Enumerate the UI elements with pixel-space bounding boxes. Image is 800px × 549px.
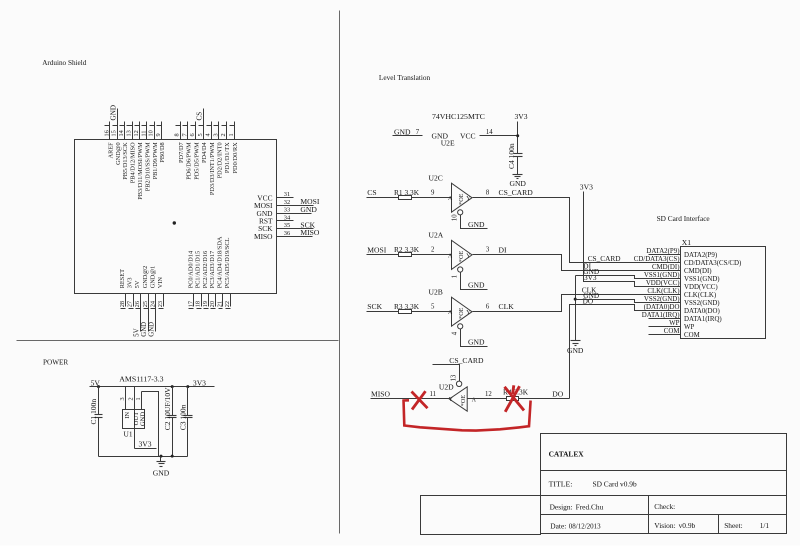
svg-text:5V: 5V [134, 328, 141, 336]
svg-text:*OE: *OE [458, 307, 465, 319]
wire CS_CARD net to X1 [473, 198, 681, 263]
pin 18 (PC1/AD1/D15) bottom [201, 294, 203, 307]
wire 3V3 rail to X1 VDD [584, 192, 681, 287]
svg-text:COM: COM [664, 328, 680, 335]
pin 2 (PD1/D1/TX) top [226, 122, 228, 140]
svg-text:PD7/D7: PD7/D7 [178, 142, 185, 163]
junction GND/VSS2 [574, 298, 577, 301]
svg-text:3: 3 [486, 247, 490, 254]
svg-text:PC5/AD5/D19/SCL: PC5/AD5/D19/SCL [224, 237, 231, 288]
wire SCK input [367, 311, 399, 313]
X1 pin 4 VSS1(GND) [649, 278, 681, 280]
wire U2A OE to GND [461, 273, 488, 290]
pin 28 (RESET) bottom [125, 294, 127, 307]
svg-text:CD/DATA3(CS): CD/DATA3(CS) [634, 256, 680, 263]
svg-text:GND: GND [468, 281, 485, 290]
svg-text:PD2/D2/INT0: PD2/D2/INT0 [217, 142, 224, 178]
svg-text:4: 4 [451, 331, 458, 335]
svg-text:GND: GND [141, 322, 148, 337]
capacitor C1 100n [98, 387, 100, 415]
svg-text:33: 33 [284, 207, 290, 214]
svg-text:RESET: RESET [119, 269, 126, 288]
svg-text:U1: U1 [124, 430, 133, 439]
ground symbol C4 [513, 174, 523, 176]
svg-text:3V3: 3V3 [580, 182, 593, 191]
junction C2 / ground rail [171, 455, 174, 458]
svg-text:1/1: 1/1 [760, 521, 770, 530]
X1 pin 7 VSS2(GND) [649, 302, 681, 304]
pin 31 (VCC) right [277, 197, 294, 199]
X1 pin 8 DATA0(DO) [649, 310, 681, 312]
svg-text:31: 31 [284, 191, 290, 198]
svg-text:26: 26 [134, 301, 141, 307]
svg-text:DATA1(IRQ): DATA1(IRQ) [684, 316, 722, 323]
svg-text:8: 8 [174, 133, 181, 136]
svg-text:11: 11 [140, 130, 147, 136]
svg-text:PB0/D8: PB0/D8 [159, 142, 166, 162]
svg-text:GND: GND [567, 346, 584, 355]
svg-text:PD0/D0/RX: PD0/D0/RX [232, 142, 239, 174]
svg-text:25: 25 [142, 301, 149, 307]
gate U2A OE bubble pin 1 [458, 267, 463, 272]
pin 35 (SCK) right [277, 228, 314, 230]
capacitor C4 100n [514, 153, 523, 155]
X1 pin 1 DATA2(P9) [649, 254, 681, 256]
svg-text:VDD(VCC): VDD(VCC) [684, 284, 718, 291]
title block dividers [541, 470, 787, 472]
pin 21 (PC4/AD4/D18/SDA) bottom [222, 294, 224, 307]
svg-text:10: 10 [451, 214, 458, 221]
svg-text:GND: GND [468, 338, 485, 347]
svg-text:DATA0(DO): DATA0(DO) [684, 308, 720, 315]
svg-text:3V3: 3V3 [139, 439, 152, 448]
svg-text:Sheet:: Sheet: [724, 521, 742, 530]
svg-text:PB2/D10/SS/PWM: PB2/D10/SS/PWM [144, 142, 151, 191]
sheet divider horizontal (left half) [17, 340, 339, 342]
svg-text:15: 15 [111, 130, 118, 136]
svg-text:VSS2(GND): VSS2(GND) [644, 296, 680, 303]
svg-text:U2C: U2C [429, 173, 443, 182]
X1 pin 11 COM [649, 334, 681, 336]
svg-text:10: 10 [148, 130, 155, 136]
pin 27 (3V3) bottom [133, 294, 135, 307]
wire MISO to U2D output [371, 398, 450, 400]
svg-text:23: 23 [157, 301, 164, 307]
svg-text:7: 7 [181, 133, 188, 136]
red X mark over R4 [505, 387, 525, 411]
pin 32 (MOSI) right [277, 205, 314, 207]
svg-text:22: 22 [224, 301, 231, 307]
X1 pin 2 CD/DATA3(CS/CD) [649, 262, 681, 264]
svg-text:SD Card v0.9b: SD Card v0.9b [593, 480, 637, 489]
svg-text:19: 19 [202, 301, 209, 307]
U1 pin 3 IN [125, 387, 127, 410]
svg-text:CATALEX: CATALEX [549, 449, 585, 458]
wire CS input [367, 197, 399, 199]
svg-text:MISO: MISO [254, 232, 273, 241]
svg-text:Level Translation: Level Translation [379, 73, 431, 82]
Arduino Shield symbol dot [173, 221, 176, 224]
svg-text:VSS2(GND): VSS2(GND) [684, 300, 720, 307]
svg-text:Check:: Check: [654, 502, 675, 511]
pin 7 (PD6/D6/PWM) top [187, 122, 189, 140]
svg-text:X1: X1 [682, 238, 691, 247]
svg-text:VDD(VCC): VDD(VCC) [646, 280, 680, 287]
svg-text:Design:: Design: [550, 502, 573, 511]
pin 26 (5V) bottom [140, 294, 142, 332]
pin 17 (PC0/AD0/D14) bottom [193, 294, 195, 307]
svg-text:WP: WP [684, 324, 695, 331]
pin 16 (AREF) top [109, 122, 111, 140]
svg-text:DATA2(P9): DATA2(P9) [646, 248, 679, 255]
IC U? Arduino Shield body [75, 140, 277, 294]
svg-text:VSS1(GND): VSS1(GND) [644, 272, 680, 279]
svg-text:5: 5 [431, 303, 435, 310]
svg-text:CLK(CLK): CLK(CLK) [684, 292, 716, 299]
svg-text:9: 9 [431, 189, 435, 196]
regulator U1 AMS1117 body [123, 410, 145, 429]
svg-text:Arduino Shield: Arduino Shield [42, 59, 87, 67]
svg-text:CD/DATA3(CS/CD): CD/DATA3(CS/CD) [684, 260, 741, 267]
svg-text:17: 17 [187, 301, 194, 307]
pin 11 (PB2/D10/SS/PWM) top [146, 122, 148, 140]
svg-text:DI: DI [499, 245, 507, 254]
pin 10 (PB1/D9/PWM) top [154, 122, 156, 140]
svg-text:POWER: POWER [43, 359, 68, 367]
svg-text:CMD(DI): CMD(DI) [652, 264, 680, 271]
pin 12 (PB3/D11/MOSI/PWM) top [139, 122, 141, 140]
X1 pin 3 CMD(DI) [649, 270, 681, 272]
svg-text:GND@0: GND@0 [115, 142, 122, 165]
revision table empty box [421, 496, 541, 535]
svg-text:*OE: *OE [460, 395, 467, 407]
svg-text:U2A: U2A [429, 231, 444, 240]
X1 pin 6 CLK(CLK) [649, 294, 681, 296]
svg-text:*OE: *OE [458, 193, 465, 205]
svg-text:34: 34 [284, 214, 291, 221]
wire U2D input [468, 398, 507, 400]
svg-text:GND: GND [583, 291, 599, 300]
svg-text:TITLE:: TITLE: [549, 480, 573, 489]
wire U2C OE to GND [461, 215, 488, 229]
svg-text:5: 5 [197, 133, 204, 136]
svg-text:SCK: SCK [367, 302, 382, 311]
pin 5 (PD4/D4) top [203, 122, 205, 140]
svg-text:GND: GND [149, 322, 156, 337]
svg-text:CS_CARD: CS_CARD [588, 254, 621, 263]
svg-text:PD5/D5/PWM: PD5/D5/PWM [193, 142, 200, 180]
svg-text:GND: GND [110, 105, 118, 121]
net label GND (pin 15) [117, 109, 119, 122]
svg-text:VSS1(GND): VSS1(GND) [684, 276, 720, 283]
svg-text:3V3: 3V3 [515, 112, 528, 121]
svg-text:24: 24 [149, 300, 156, 307]
svg-text:8: 8 [486, 189, 490, 196]
svg-text:GND: GND [509, 179, 526, 188]
svg-text:74VHC125MTC: 74VHC125MTC [432, 112, 485, 121]
pin 24 (GND@1) bottom [155, 294, 157, 332]
svg-text:MISO: MISO [371, 389, 391, 398]
svg-text:PC4/AD4/D18/SDA: PC4/AD4/D18/SDA [217, 236, 224, 288]
svg-text:MISO: MISO [300, 228, 320, 237]
pin 25 (GND@2) bottom [148, 294, 150, 332]
pin 36 (MISO) right [277, 236, 313, 238]
svg-text:VCC: VCC [460, 131, 476, 140]
svg-text:PC2/AD2/D16: PC2/AD2/D16 [202, 251, 209, 288]
svg-text:28: 28 [119, 301, 126, 307]
svg-text:11: 11 [430, 391, 437, 398]
svg-text:DO: DO [552, 389, 563, 398]
pin 13 (PB4/D12/MISO) top [132, 122, 134, 140]
wire 3V3 stub to C4 [517, 122, 519, 154]
gate U2A triangle [452, 240, 473, 269]
sheet divider vertical [339, 11, 341, 534]
svg-text:27: 27 [127, 301, 134, 307]
svg-text:2: 2 [128, 397, 135, 400]
capacitor C2 10UF/10V [172, 387, 174, 416]
svg-text:(DATA0)DO: (DATA0)DO [644, 304, 680, 311]
pin 1 (PD0/D0/RX) top [234, 122, 236, 140]
svg-text:MOSI: MOSI [367, 245, 386, 254]
pin 3 (PD2/D2/INT0) top [218, 122, 220, 140]
svg-text:6: 6 [189, 133, 196, 136]
junction ground rail / GND symbol [160, 455, 163, 458]
svg-text:GND: GND [300, 205, 317, 214]
svg-text:1: 1 [451, 275, 458, 278]
svg-text:3: 3 [212, 133, 219, 136]
wire ground rail POWER [99, 456, 188, 458]
X1 pin 9 DATA1(IRQ) [649, 318, 681, 320]
svg-text:GND@1: GND@1 [149, 266, 156, 289]
svg-text:PD4/D4: PD4/D4 [201, 141, 208, 162]
svg-text:CLK: CLK [499, 302, 515, 311]
wire R1 to gate U2C [412, 197, 452, 199]
junction VCC/3V3/C4 [516, 134, 519, 137]
svg-text:WP: WP [669, 320, 680, 327]
svg-text:3: 3 [119, 397, 126, 400]
svg-text:16: 16 [103, 130, 110, 136]
svg-text:08/12/2013: 08/12/2013 [569, 523, 601, 531]
svg-text:U2D: U2D [439, 383, 454, 392]
svg-text:14: 14 [486, 129, 493, 136]
svg-text:20: 20 [209, 301, 216, 307]
svg-text:1: 1 [228, 133, 235, 136]
gate U2C triangle [452, 183, 473, 212]
svg-text:PB4/D12/MISO: PB4/D12/MISO [130, 142, 137, 183]
pin 20 (PC3/AD3/D17) bottom [215, 294, 217, 307]
svg-text:AMS1117-3.3: AMS1117-3.3 [119, 374, 163, 383]
X1 pin 10 WP [649, 326, 681, 328]
svg-text:COM: COM [684, 332, 700, 339]
svg-text:6: 6 [486, 303, 490, 310]
pin 14 (PB5/D13/SCK) top [124, 122, 126, 140]
pin 8 (PD7/D7) top [180, 122, 182, 140]
svg-text:DATA1(IRQ): DATA1(IRQ) [642, 312, 680, 319]
ground symbol POWER [160, 457, 162, 462]
wire MOSI input [367, 254, 399, 256]
svg-text:2: 2 [220, 133, 227, 136]
red X mark over MISO wire [412, 392, 428, 409]
red bracket annotation [403, 400, 531, 431]
svg-text:GND: GND [140, 412, 147, 427]
svg-text:Fred.Chu: Fred.Chu [576, 502, 604, 511]
svg-text:CS: CS [196, 112, 204, 121]
junction C2/3V3 rail [171, 385, 174, 388]
svg-text:IN: IN [124, 412, 131, 419]
svg-text:PD6/D6/PWM: PD6/D6/PWM [186, 142, 193, 180]
svg-text:18: 18 [195, 301, 202, 307]
svg-text:PB5/D13/SCK: PB5/D13/SCK [122, 142, 129, 180]
pin 33 (GND) right [277, 213, 312, 215]
svg-text:GND@2: GND@2 [142, 266, 149, 289]
gate U2D OE bubble pin 13 [456, 381, 461, 386]
svg-text:SD Card Interface: SD Card Interface [657, 214, 710, 223]
svg-text:CS: CS [367, 188, 376, 197]
svg-text:13: 13 [126, 130, 133, 136]
svg-text:9: 9 [155, 133, 162, 136]
svg-text:Vision:: Vision: [654, 521, 675, 530]
svg-text:C1 100n: C1 100n [89, 399, 98, 425]
svg-text:PB1/D9/PWM: PB1/D9/PWM [152, 142, 159, 179]
wire DI net to X1 [473, 255, 681, 271]
X1 pin 5 VDD(VCC) [649, 286, 681, 288]
svg-text:VIN: VIN [157, 277, 164, 289]
junction C1/5V [97, 385, 100, 388]
svg-text:13: 13 [451, 374, 458, 381]
pin 23 (VIN) bottom [163, 294, 165, 307]
svg-text:14: 14 [118, 129, 125, 136]
svg-text:U2B: U2B [429, 287, 443, 296]
svg-text:12: 12 [485, 391, 492, 398]
svg-text:12: 12 [133, 130, 140, 136]
svg-text:PC0/AD0/D14: PC0/AD0/D14 [187, 250, 194, 288]
svg-text:5V: 5V [134, 280, 141, 288]
svg-text:C3 100n: C3 100n [179, 404, 188, 430]
svg-text:2: 2 [431, 247, 435, 254]
wire 5V rail [90, 386, 215, 388]
svg-text:Date:: Date: [550, 522, 566, 531]
wire U2B OE to GND [461, 329, 488, 347]
pin 4 (PD3/D3/INT1/PWM) top [211, 122, 213, 140]
svg-text:CS_CARD: CS_CARD [449, 356, 484, 365]
pin 6 (PD5/D5/PWM) top [195, 122, 197, 140]
wire DO net to X1 [570, 305, 681, 399]
svg-text:CS_CARD: CS_CARD [499, 188, 534, 197]
svg-text:C2 10UF/10V: C2 10UF/10V [163, 387, 172, 430]
svg-text:1: 1 [135, 397, 142, 400]
net label CS (pin 5) [203, 109, 205, 122]
svg-text:DATA2(P9): DATA2(P9) [684, 252, 717, 259]
svg-text:7: 7 [416, 129, 420, 136]
svg-text:U2E: U2E [441, 138, 455, 147]
svg-text:CMD(DI): CMD(DI) [684, 268, 712, 275]
pin 19 (PC2/AD2/D16) bottom [208, 294, 210, 307]
svg-text:35: 35 [284, 222, 290, 229]
wire GND to X1 VSS1 [576, 276, 681, 279]
gate U2C OE bubble pin 10 [458, 210, 463, 215]
junction C3/3V3 rail [186, 385, 189, 388]
svg-text:3V3: 3V3 [127, 277, 134, 288]
pin 15 (GND@0) top [117, 122, 119, 140]
svg-text:21: 21 [217, 301, 224, 307]
svg-text:v0.9b: v0.9b [679, 521, 696, 530]
svg-text:PD3/D3/INT1/PWM: PD3/D3/INT1/PWM [209, 142, 216, 195]
svg-text:GND: GND [153, 469, 170, 478]
title block outline [541, 434, 787, 534]
pin 9 (PB0/D8) top [161, 122, 163, 140]
wire GND to X1 VSS2 [576, 300, 681, 303]
svg-text:PD1/D1/TX: PD1/D1/TX [224, 142, 231, 173]
ground symbol X1 [571, 340, 581, 342]
svg-text:PB3/D11/MOSI/PWM: PB3/D11/MOSI/PWM [137, 142, 144, 200]
pin 34 (RST) right [277, 220, 294, 222]
svg-text:GND: GND [468, 220, 485, 229]
gate U2B OE bubble pin 4 [458, 324, 463, 329]
wire R3 to gate U2B [412, 311, 452, 313]
wire U2D OE to CS_CARD [433, 365, 460, 382]
connector X1 body [681, 247, 766, 339]
gate U2B triangle [452, 297, 473, 326]
capacitor C3 100n [187, 387, 189, 416]
svg-text:CLK(CLK): CLK(CLK) [647, 288, 679, 295]
gate U2D triangle (reversed) [449, 387, 467, 411]
svg-text:*OE: *OE [458, 251, 465, 263]
U1 pin 1 GND [141, 392, 143, 410]
svg-text:3V3: 3V3 [193, 378, 206, 387]
svg-text:AREF: AREF [107, 142, 114, 159]
svg-text:36: 36 [284, 230, 290, 237]
svg-text:GND: GND [583, 267, 599, 276]
svg-text:PC1/AD1/D15: PC1/AD1/D15 [195, 251, 202, 288]
svg-text:C4 100n: C4 100n [507, 143, 516, 169]
svg-text:32: 32 [284, 199, 290, 206]
svg-text:PC3/AD3/D17: PC3/AD3/D17 [209, 251, 216, 288]
wire R2 to gate U2A [412, 254, 452, 256]
wire GND vertical [575, 276, 577, 341]
wire R4 to DO [519, 398, 570, 400]
wire U1 GND to ground rail [142, 392, 159, 457]
wire U1 OUT 3V3 stub [135, 448, 157, 450]
wire CLK net to X1 [473, 295, 681, 312]
pin 22 (PC5/AD5/D19/SCL) bottom [230, 294, 232, 307]
U1 pin 2 OUT [134, 387, 136, 449]
